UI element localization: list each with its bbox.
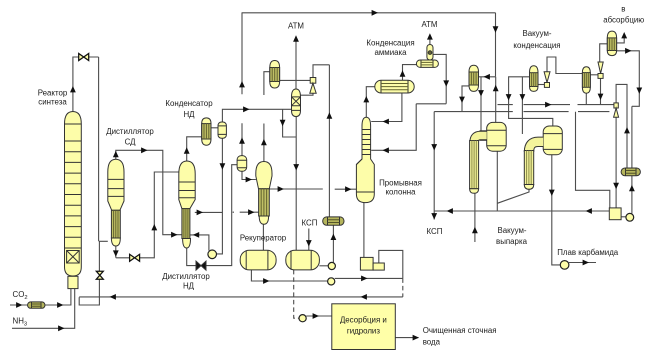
vacuum separator 2	[543, 126, 562, 155]
wire ejector F2 drop to H1	[600, 78, 602, 104]
arrow right absorber outlet	[625, 48, 631, 54]
arrow up ND overhead	[184, 147, 190, 153]
wire E1 to ejector EJ1	[280, 79, 311, 81]
svg-text:синтеза: синтеза	[38, 98, 67, 107]
vessel V1 flash drum	[237, 156, 247, 172]
wire X-vessel bottoms to drum B	[295, 117, 297, 251]
wire KSP drum to pump P2a	[332, 225, 334, 262]
exchanger E5	[582, 67, 590, 94]
svg-text:НД: НД	[183, 282, 195, 291]
arrow right NH3	[58, 325, 64, 331]
arrow right SD overhead corner	[141, 147, 147, 153]
wire vapor drop into J1 elbow	[480, 77, 482, 131]
wire vacuum condensate to tank B1	[576, 112, 610, 208]
svg-text:колонна: колонна	[386, 188, 417, 197]
wire H1 vapor header	[498, 104, 614, 106]
arrow down into J1	[478, 90, 484, 96]
exchanger E1	[270, 61, 280, 89]
wire desorption treated water outlet	[395, 337, 418, 339]
svg-text:Дистиллятор: Дистиллятор	[162, 272, 210, 281]
arrow left recycle mid	[361, 294, 367, 300]
wire KSP sample line into drum B	[308, 229, 310, 251]
wire vacuum vessel 1 riser	[495, 77, 497, 123]
pump P5	[560, 261, 569, 270]
wire carbamate recycle main line	[79, 296, 403, 298]
wire manifold branch into X-vessel line	[283, 109, 297, 137]
exchanger E3	[469, 65, 479, 91]
svg-text:СД: СД	[125, 138, 137, 147]
wire ejector line down to KSP drum	[328, 65, 330, 219]
wire pump P1 to distiller ND	[190, 235, 209, 251]
svg-text:КСП: КСП	[302, 219, 318, 228]
wire E5 to ejector F2	[590, 74, 598, 76]
wire absorber outlet	[617, 38, 625, 43]
svg-text:Плав карбамида: Плав карбамида	[557, 248, 619, 257]
wire ejector EJ1 tail to X-vessel	[301, 93, 314, 95]
distiller ND vessel	[179, 161, 195, 248]
valve top recycle	[79, 54, 89, 61]
heater pipe J1	[470, 136, 487, 194]
svg-text:Вакуум-: Вакуум-	[522, 29, 551, 38]
svg-text:выпарка: выпарка	[496, 237, 528, 246]
condenser ND exchanger	[202, 118, 211, 145]
arrow up V1 riser lower	[239, 137, 245, 143]
wire recuperator bottoms to drum A	[262, 224, 264, 250]
ammonia condensation drum	[375, 80, 414, 93]
wire recuperator side outlet	[268, 188, 357, 190]
svg-text:Вакуум-: Вакуум-	[497, 226, 526, 235]
svg-text:Конденсация: Конденсация	[366, 39, 414, 48]
pump P1	[208, 250, 217, 259]
wire header drop into exchanger E3	[479, 13, 496, 77]
arrow right ND side stream	[197, 210, 203, 216]
reactor synthesis column	[65, 112, 82, 289]
arrow down header into E3	[493, 26, 499, 32]
wire pump P4 riser through drum Hd	[631, 106, 633, 213]
arrow up ATM1 vent	[293, 35, 299, 41]
arrow right into wash column base	[345, 186, 351, 192]
wire CO2 feed	[10, 289, 71, 305]
pump P2b	[328, 278, 335, 285]
arrow right recuperator side outlet	[278, 186, 284, 192]
arrow down D1 bottoms	[220, 163, 226, 169]
svg-text:КСП: КСП	[427, 227, 443, 236]
arrow up reactor inlet	[70, 86, 76, 92]
arrow up SD overhead	[113, 151, 119, 157]
drum A receiver	[240, 250, 276, 270]
wire E3 left condensate	[462, 86, 469, 112]
desorption hydrolysis unit box	[332, 304, 396, 350]
arrow down SV drain	[443, 80, 449, 86]
arrow up vacuum vessel1 riser	[493, 85, 499, 91]
arrow left P1 into ND	[193, 232, 199, 238]
svg-text:вода: вода	[423, 338, 441, 347]
wire reactor top recycle down to distiller SD	[79, 57, 108, 305]
drum D1 receiver	[218, 122, 226, 138]
svg-text:Очищенная сточная: Очищенная сточная	[423, 326, 497, 335]
arrow down valve drop to B1	[613, 183, 619, 189]
svg-text:аммиака: аммиака	[374, 48, 407, 57]
svg-text:конденсация: конденсация	[513, 41, 560, 50]
wash column pump block	[360, 257, 384, 270]
wire drum D1 bottoms to pump P1	[217, 138, 223, 254]
wash column	[356, 117, 374, 202]
pump P2a	[328, 262, 335, 269]
wire NH3 feed	[12, 289, 75, 329]
arrow down into J2	[520, 94, 526, 100]
wire distiller ND overhead to condenser ND	[187, 137, 202, 161]
arrow up P2a to KSP drum	[331, 234, 337, 240]
wire E5 bottom drop	[585, 93, 587, 104]
arrow up SV vent	[427, 33, 433, 39]
arrow right melt outlet	[583, 260, 589, 266]
wire absorber A1 to ejector F2	[600, 44, 608, 62]
arrow right treated water	[413, 335, 419, 341]
svg-text:Рекуператор: Рекуператор	[240, 234, 287, 243]
wire ammonia condenser bottoms to wash column	[371, 93, 402, 122]
wire wash column overhead riser	[366, 87, 375, 118]
wire J1 lower stub	[474, 193, 476, 242]
wire distiller SD bottoms to valve and ND	[116, 172, 179, 258]
ejector F1	[544, 72, 550, 88]
svg-text:Промывная: Промывная	[379, 179, 422, 188]
absorber vessel A1	[607, 31, 616, 55]
wire distiller ND bottoms via valve to vessel V1	[187, 165, 237, 266]
arrow down vessel2 drain	[549, 190, 555, 196]
X-vessel scrubber	[292, 89, 301, 117]
wire drum D1 top manifold	[222, 109, 291, 122]
small separator SV	[427, 45, 433, 61]
arrow right V1 bottoms into recuperator	[246, 177, 252, 183]
wire feed into recuperator	[233, 211, 261, 213]
valve ND bottoms	[196, 261, 206, 270]
arrow up P4 riser	[629, 185, 635, 191]
arrow up ammonia condenser riser	[400, 70, 406, 76]
wire ammonia condenser top riser	[403, 65, 417, 81]
arrow up wash column overhead	[363, 96, 369, 102]
wire vessel V1 bottoms to recuperator top	[242, 171, 256, 179]
wire top header to vacuum condensation	[242, 12, 496, 14]
wire condensate header to wash column neck	[371, 54, 446, 150]
wire valve Ve stem over to drum Hd	[616, 84, 627, 168]
svg-text:в: в	[621, 5, 625, 14]
arrow up recuperator overhead	[261, 139, 267, 145]
svg-text:Дистиллятор: Дистиллятор	[106, 127, 154, 136]
arrow right CO2 inlet	[16, 302, 22, 308]
arrow right feed into recuperator	[248, 209, 254, 215]
wire drum B to pump P2a	[319, 265, 328, 267]
arrow left header into wash column neck	[383, 147, 389, 153]
arrow up to absorption	[621, 32, 627, 38]
wire valve Ve drop to tank B1	[615, 117, 617, 208]
wire distiller ND side stream	[195, 211, 223, 213]
arrow left recycle at reactor	[110, 294, 116, 300]
svg-text:Конденсатор: Конденсатор	[165, 99, 213, 108]
arrow right CO2 to reactor	[57, 302, 63, 308]
svg-text:НД: НД	[183, 110, 195, 119]
svg-text:абсорбцию: абсорбцию	[603, 16, 644, 25]
wire vapor drop into J2 elbow	[521, 77, 523, 134]
CO2 compressor drum	[28, 302, 46, 308]
arrow left vacuum liquor line	[447, 208, 453, 214]
wire condenser ND to drum D1	[211, 127, 218, 129]
arrow right D1 manifold	[243, 106, 249, 112]
arrow up V1 riser upper	[239, 81, 245, 87]
wire recuperator overhead to exchanger E1	[264, 72, 270, 162]
svg-text:АТМ: АТМ	[288, 22, 304, 31]
arrow up ejector line	[327, 112, 333, 118]
collection tank B1	[609, 208, 621, 220]
wire distiller SD overhead	[116, 150, 182, 234]
arrow down manifold branch	[280, 120, 286, 126]
wire vacuum vessel 1 and J2 drains	[497, 151, 529, 211]
ejector EJ1	[310, 78, 316, 94]
wire pump P2b discharge	[335, 277, 403, 279]
arrow left into E3	[484, 74, 490, 80]
arrow up J1 stub	[472, 227, 478, 233]
arrow left condenser bottoms into neck	[383, 119, 389, 125]
arrow up into drum Hd	[624, 127, 630, 133]
arrow down X-vessel bottoms	[293, 164, 299, 170]
valve recycle vertical	[96, 271, 103, 279]
valve SD bottoms	[130, 254, 140, 261]
distiller SD vessel	[108, 159, 124, 246]
svg-text:Реактор: Реактор	[38, 89, 68, 98]
small condensate drum SD2	[416, 60, 438, 67]
svg-text:Десорбция и: Десорбция и	[340, 316, 387, 325]
recuperator vessel	[256, 162, 272, 225]
pump P4	[626, 213, 634, 221]
wire wash column pump discharge	[379, 250, 403, 278]
arrow left vacuum liquor line right	[586, 208, 592, 214]
wire H2 vapor header	[434, 112, 609, 211]
arrow right drum A bottoms	[263, 278, 269, 284]
wire junction down to recycle line	[402, 278, 404, 297]
arrow right P2b discharge	[361, 276, 367, 282]
arrow down KSP into drum B	[306, 240, 312, 246]
wire X-vessel vent ATM	[295, 41, 297, 89]
arrow right H1 header	[545, 102, 551, 108]
ejector valve Ve	[614, 103, 619, 117]
wire tank B1 to pump P4	[621, 216, 626, 218]
pump P3	[299, 315, 306, 322]
wire drum B bottoms to pump P3	[294, 270, 299, 318]
heater pipe J2	[524, 142, 543, 190]
wire vacuum vessel 2 riser to E4	[509, 77, 553, 126]
arrow down SD bottoms	[113, 250, 119, 256]
arrow right SD vapor into ND	[171, 232, 177, 238]
arrow down F2 drain	[598, 94, 604, 100]
arrow up SD bottoms to ND	[151, 224, 157, 230]
wire ejector F1 to E5	[547, 57, 582, 74]
arrow down vacuum drop line	[431, 144, 437, 150]
wire drum A bottoms to pump P2b	[251, 270, 327, 281]
arrow right P3 into desorption	[313, 313, 319, 319]
wire main vacuum liquor line to KSP	[434, 211, 609, 220]
arrow down to KSP right	[431, 213, 437, 219]
wire vessel V1 vapor riser	[241, 13, 243, 156]
arrow down E3 condensate	[459, 97, 465, 103]
wire vacuum vessel 2 drain	[551, 155, 553, 211]
arrow down riser junction	[506, 94, 512, 100]
wire wash column bottoms	[363, 203, 365, 258]
KSP drum exchanger	[323, 217, 344, 225]
svg-text:АТМ: АТМ	[421, 20, 437, 29]
wire melt line to pump P5	[552, 211, 561, 265]
ejector F2	[598, 62, 603, 78]
wire absorber outlet loop down	[617, 51, 640, 107]
drum B receiver	[286, 250, 320, 270]
wire reactor top to valve	[73, 57, 99, 112]
svg-text:гидролиз: гидролиз	[347, 327, 381, 336]
wire pump P5 melt outlet	[569, 262, 596, 264]
wire small vessel SV vent ATM	[429, 39, 431, 45]
small drum Hd	[621, 168, 640, 176]
wire pump P3 to desorption unit	[306, 315, 332, 317]
arrow down absorber loop	[636, 88, 642, 94]
arrow right top header	[372, 10, 378, 16]
wire E4 to ejector F1	[538, 84, 544, 86]
exchanger E4	[530, 66, 539, 92]
vacuum separator 1	[480, 122, 506, 151]
wire ejector EJ1 top line	[313, 65, 329, 78]
